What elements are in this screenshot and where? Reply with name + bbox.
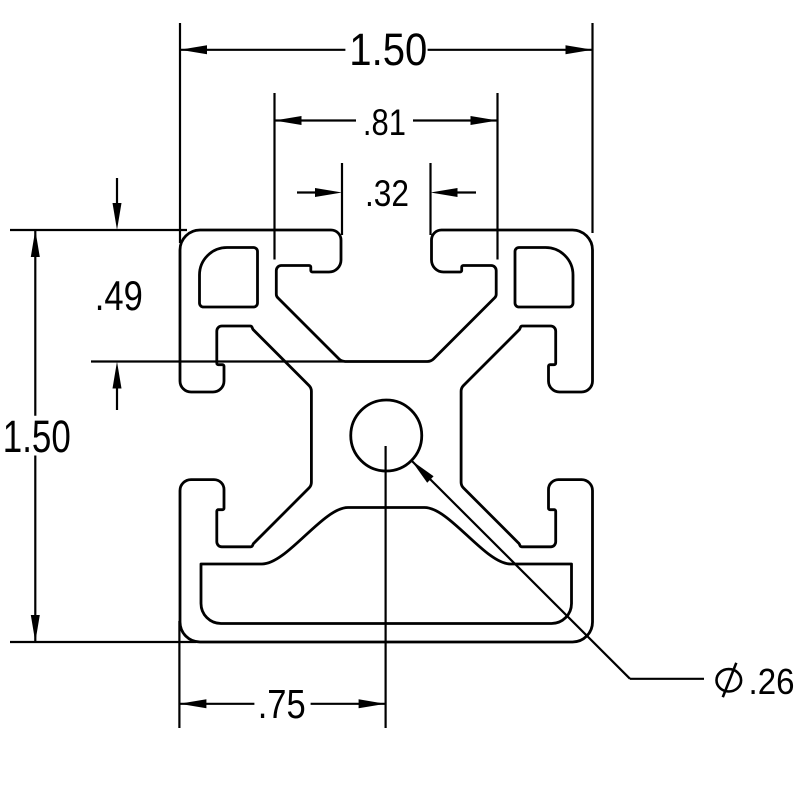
svg-text:.75: .75 (258, 681, 306, 727)
dim line .75 seg left (179, 703, 254, 705)
dim-1.50-left arrow bottom (31, 615, 40, 642)
ext line .75 left (178, 621, 180, 728)
leader line diagonal (411, 460, 630, 678)
dim line 1.50 top seg left (180, 49, 345, 51)
diameter symbol (717, 663, 742, 697)
ext line bottom face left (10, 641, 196, 643)
svg-text:1.50: 1.50 (349, 24, 427, 75)
hole centerline (385, 446, 387, 728)
dim-.81 arrow right (471, 116, 498, 125)
dim-.75 arrow left (179, 699, 206, 708)
svg-text:.26: .26 (749, 661, 795, 702)
dim-.81 arrow left (275, 116, 302, 125)
svg-text:1.50: 1.50 (3, 411, 71, 462)
dim-1.50-left arrow top (31, 230, 40, 257)
svg-text:.49: .49 (95, 272, 143, 319)
dim line 1.50 left seg top (34, 230, 36, 416)
dim-.49 arrow top (113, 203, 122, 230)
dim line .49 tail top (116, 178, 118, 206)
dim line .81 seg left (275, 119, 357, 121)
ext line .81 left (273, 93, 275, 260)
ext line right face top (591, 23, 593, 233)
dim line .32 tail left (297, 191, 320, 193)
dim line .32 tail right (452, 191, 476, 193)
ext line .81 right (496, 93, 498, 260)
ext line left face top (179, 23, 181, 243)
bottom internal cavity (201, 508, 572, 624)
leader line horizontal (630, 678, 704, 680)
ext line top face left (10, 229, 187, 231)
dim-.75 arrow right (359, 699, 386, 708)
svg-text:.81: .81 (363, 102, 406, 143)
ext line .32 right (429, 163, 431, 235)
ext line slot floor left (91, 360, 343, 362)
dim line 1.50 left seg bottom (34, 456, 36, 643)
extrusion outer profile outline (180, 230, 593, 642)
center hole dia .26 (351, 400, 422, 471)
dim line .49 tail bottom (116, 386, 118, 410)
dim-1.50-top arrow right (566, 45, 593, 54)
svg-text:.32: .32 (365, 173, 409, 214)
ext line .32 left (341, 163, 343, 235)
dim-.32 arrow left (315, 188, 342, 197)
left ear square hole (200, 248, 258, 308)
dim-.49 arrow bottom (113, 362, 122, 389)
dim line 1.50 top seg right (428, 49, 593, 51)
dim-1.50-top arrow left (180, 45, 207, 54)
right ear square hole (515, 248, 573, 308)
leader arrow (411, 460, 433, 482)
dim line .81 seg right (413, 119, 498, 121)
dim line .75 seg right (311, 703, 386, 705)
dim-.32 arrow right (431, 188, 458, 197)
